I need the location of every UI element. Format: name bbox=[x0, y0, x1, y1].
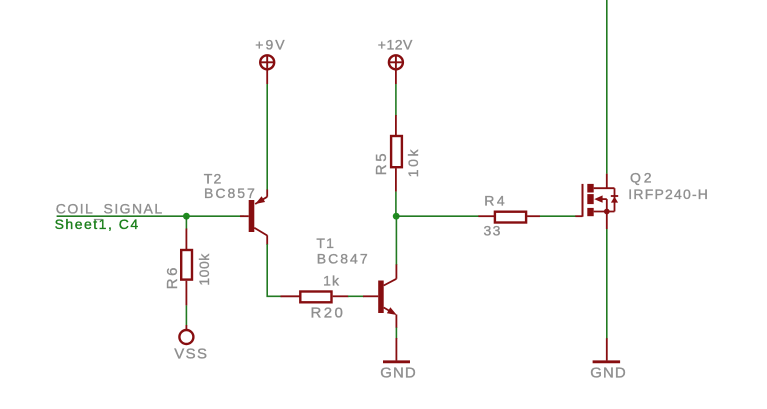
wire junction to R6 bbox=[185, 216, 187, 229]
mosfet Q2 body diode line bbox=[614, 188, 616, 211]
resistor R5 pin bottom bbox=[395, 168, 397, 191]
supply +9V pin bbox=[266, 70, 268, 85]
mosfet Q2 body diode triangle bbox=[611, 197, 618, 203]
svg-text:Q2: Q2 bbox=[630, 169, 654, 185]
ground GND bar (Q2) bbox=[593, 360, 621, 363]
resistor R4 pin left bbox=[478, 215, 494, 217]
mosfet Q2 source pin bbox=[606, 212, 608, 230]
transistor T2 emitter arrow (PNP) bbox=[255, 196, 265, 204]
resistor R20 pin left bbox=[281, 295, 300, 297]
mosfet Q2 channel bar top bbox=[587, 184, 593, 193]
svg-text:Sheet1, C4: Sheet1, C4 bbox=[55, 216, 140, 232]
resistor R20 pin right bbox=[333, 295, 349, 297]
mosfet Q2 gate pin bbox=[575, 215, 582, 217]
wire R5 to junction bbox=[395, 192, 397, 217]
wire +9V to T2 emitter bbox=[266, 84, 268, 190]
mosfet Q2 substrate arrow bbox=[594, 195, 602, 202]
supply VSS pin bbox=[185, 325, 187, 331]
resistor R4 body bbox=[495, 212, 526, 223]
mosfet Q2 drain connect bbox=[594, 187, 615, 189]
supply +9V circle bbox=[260, 55, 274, 69]
transistor T1 base pin bbox=[363, 295, 378, 297]
svg-text:1k: 1k bbox=[323, 273, 340, 289]
resistor R4 pin right bbox=[527, 215, 540, 217]
mosfet Q2 drain pin bbox=[606, 174, 608, 189]
resistor R5 body bbox=[391, 136, 402, 167]
svg-text:GND: GND bbox=[380, 365, 417, 382]
mosfet Q2 channel bar bottom bbox=[587, 208, 593, 216]
ground GND pin (Q2) bbox=[606, 338, 608, 360]
supply VSS circle bbox=[179, 330, 193, 344]
wire source to GND bbox=[606, 229, 608, 339]
node junction on COIL_SIGNAL net bbox=[183, 213, 190, 220]
mosfet Q2 body diode cathode bar bbox=[611, 195, 618, 197]
svg-text:10k: 10k bbox=[405, 147, 421, 177]
transistor T1 base bar bbox=[378, 281, 384, 314]
resistor R20 body bbox=[300, 292, 331, 303]
transistor T2 emitter lead bbox=[266, 190, 268, 197]
wire T2 collector down and right to R20 bbox=[267, 244, 281, 296]
wire R20 to T1 base bbox=[348, 295, 364, 297]
svg-text:BC847: BC847 bbox=[317, 250, 370, 266]
node junction R5/T1/R4 bbox=[393, 213, 400, 220]
supply +12V circle bbox=[389, 55, 403, 69]
ground GND bar (T1) bbox=[383, 360, 410, 363]
svg-text:+12V: +12V bbox=[378, 37, 413, 53]
transistor T1 collector lead bbox=[384, 279, 397, 286]
transistor T2 base bar bbox=[249, 200, 255, 232]
wire drain to top edge bbox=[606, 0, 608, 174]
mosfet Q2 channel bar middle bbox=[587, 194, 593, 204]
wire T1 collector to junction bbox=[395, 216, 397, 264]
transistor T1 emitter arrow (NPN) bbox=[387, 307, 397, 315]
resistor R5 pin top bbox=[395, 115, 397, 135]
svg-text:VSS: VSS bbox=[174, 346, 208, 363]
wire junction to R4 bbox=[396, 215, 479, 217]
svg-text:BC857: BC857 bbox=[204, 185, 257, 201]
node Q2 source junction bbox=[604, 209, 610, 215]
transistor T1 emitter lead bbox=[384, 308, 394, 314]
resistor R6 pin bottom bbox=[185, 281, 187, 306]
resistor R6 pin top bbox=[185, 229, 187, 250]
svg-text:T2: T2 bbox=[204, 171, 223, 187]
svg-text:+9V: +9V bbox=[255, 37, 286, 53]
wire +12V to R5 bbox=[395, 84, 397, 116]
svg-text:100k: 100k bbox=[196, 253, 212, 286]
mosfet Q2 gate line bbox=[582, 184, 584, 217]
svg-text:R6: R6 bbox=[164, 265, 181, 289]
svg-text:R4: R4 bbox=[484, 192, 507, 208]
wire R6 to VSS bbox=[185, 305, 187, 325]
svg-text:33: 33 bbox=[484, 222, 502, 238]
transistor T2 collector lead bbox=[254, 228, 267, 236]
svg-text:R20: R20 bbox=[311, 305, 346, 322]
wire COIL_SIGNAL to T2 base bbox=[57, 215, 244, 217]
svg-text:R5: R5 bbox=[373, 151, 390, 175]
mosfet Q2 source connect bbox=[594, 211, 615, 213]
wire T1 emitter to GND bbox=[395, 328, 397, 340]
resistor R6 body bbox=[181, 250, 192, 280]
supply +12V pin bbox=[395, 70, 397, 85]
transistor T2 base pin bbox=[240, 215, 249, 217]
ground GND pin (T1) bbox=[395, 338, 397, 360]
wire R4 to Q2 gate bbox=[540, 215, 576, 217]
svg-text:T1: T1 bbox=[316, 235, 335, 251]
svg-text:GND: GND bbox=[590, 365, 627, 382]
svg-text:IRFP240-H: IRFP240-H bbox=[628, 186, 709, 202]
